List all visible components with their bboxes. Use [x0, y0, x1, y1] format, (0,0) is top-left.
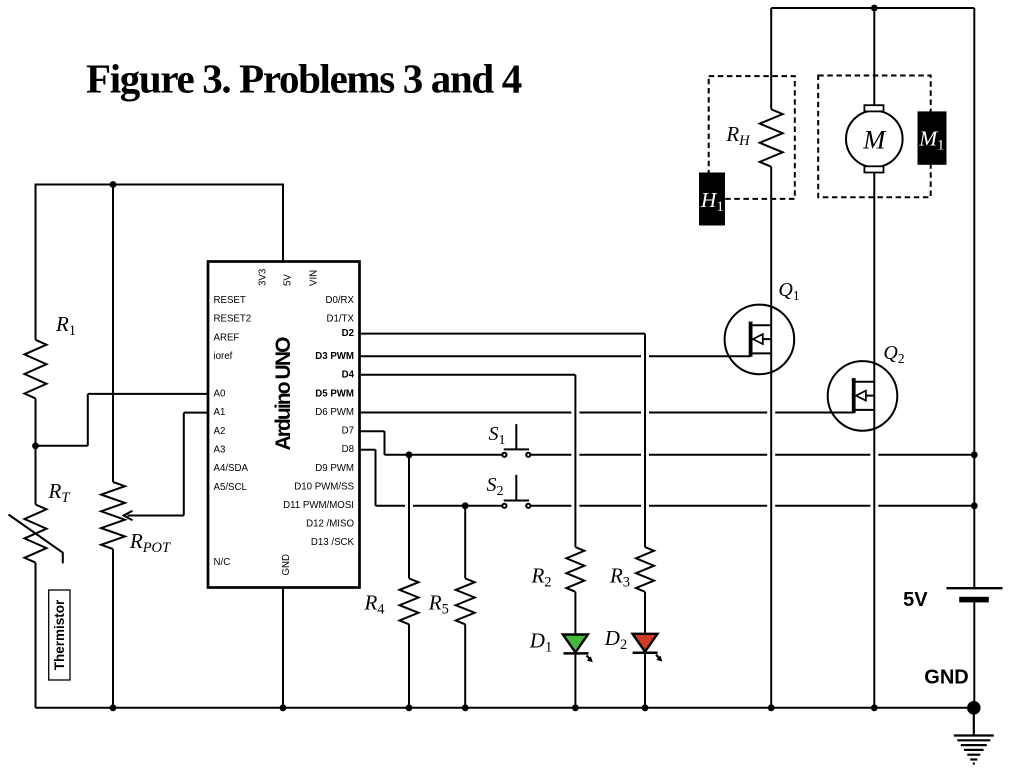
svg-text:N/C: N/C: [214, 557, 231, 568]
svg-text:A5/SCL: A5/SCL: [214, 482, 248, 493]
resistor R4: [400, 578, 419, 624]
wire: D4 net to R2: [360, 375, 576, 547]
svg-text:R3: R3: [609, 564, 630, 591]
transistor Q1: [725, 305, 795, 375]
svg-text:Q1: Q1: [778, 279, 799, 303]
svg-text:RT: RT: [48, 479, 71, 506]
wire: 5V battery rail right: [973, 8, 975, 701]
node GND junction: [967, 701, 981, 715]
M1 black box: [918, 111, 947, 164]
junction: D2 cathode on ground rail: [642, 704, 649, 711]
svg-text:D2: D2: [604, 626, 627, 653]
svg-text:D9 PWM: D9 PWM: [315, 463, 354, 474]
svg-text:Arduino UNO: Arduino UNO: [272, 337, 295, 451]
svg-text:GND: GND: [924, 667, 968, 689]
wire: top-left horizontal rail: [36, 184, 284, 186]
dashed box motor assembly: [818, 76, 931, 198]
battery 5V: [947, 588, 1003, 602]
junction: D1 cathode on ground rail: [572, 704, 579, 711]
svg-text:AREF: AREF: [214, 332, 240, 343]
thermistor text box: [49, 590, 70, 680]
wire: top-right horizontal rail: [771, 7, 974, 9]
svg-text:Thermistor: Thermistor: [52, 599, 67, 670]
wire: R2-D1 branch lower: [574, 592, 576, 708]
svg-text:D13 /SCK: D13 /SCK: [311, 537, 355, 548]
junction: S2 row to 5V rail: [971, 502, 978, 509]
svg-text:Q2: Q2: [883, 342, 904, 366]
thermistor RT: [9, 505, 63, 564]
wire: Arduino GND pin to bottom rail: [282, 588, 284, 708]
wire: 5V pin drop to Arduino: [282, 184, 284, 262]
wire: D8 jog down to S2 row: [360, 450, 376, 506]
svg-text:D10 PWM/SS: D10 PWM/SS: [294, 481, 354, 492]
svg-text:ioref: ioref: [214, 351, 233, 362]
wire: A1 wiper wire: [128, 413, 209, 516]
wire: R3-D2 branch lower: [644, 592, 646, 708]
junction: Q1 source on ground rail: [768, 704, 775, 711]
junction: motor branch on 5V top rail: [871, 5, 878, 12]
junction: R5 tap on S2 row: [462, 502, 469, 509]
svg-text:D6 PWM: D6 PWM: [315, 407, 354, 418]
resistor R2: [566, 547, 584, 592]
wire: A0 sense wire: [36, 394, 209, 446]
svg-text:M: M: [862, 125, 887, 155]
svg-text:5V: 5V: [282, 274, 293, 286]
wire: R5 branch vertical: [464, 506, 466, 708]
svg-text:VIN: VIN: [308, 270, 319, 286]
svg-text:D7: D7: [342, 426, 354, 437]
junction: R5 bottom on ground rail: [462, 704, 469, 711]
wire: S2 row: [376, 505, 975, 507]
Arduino UNO box U1: [208, 262, 360, 588]
svg-text:RESET: RESET: [214, 295, 246, 306]
wire: D6 PWM net to Q2 gate: [360, 412, 854, 414]
svg-text:D12 /MISO: D12 /MISO: [306, 519, 354, 530]
switch S2: [502, 475, 530, 508]
svg-text:A0: A0: [214, 388, 226, 399]
wiper arrowhead: [124, 511, 133, 521]
junction: Arduino GND on ground rail: [280, 704, 287, 711]
svg-text:S2: S2: [487, 474, 504, 499]
svg-text:D8: D8: [342, 444, 354, 455]
svg-text:3V3: 3V3: [257, 269, 268, 286]
svg-text:RPOT: RPOT: [129, 529, 171, 556]
LED D1 (green): [563, 635, 593, 663]
svg-text:Figure 3. Problems 3 and 4: Figure 3. Problems 3 and 4: [86, 55, 522, 101]
svg-text:R2: R2: [530, 564, 551, 591]
ground symbol: [954, 708, 994, 764]
wire: left branch vertical (R1/RT): [35, 184, 37, 708]
svg-text:A1: A1: [214, 407, 226, 418]
resistor RH: [760, 109, 783, 166]
svg-text:R5: R5: [428, 591, 449, 618]
junction: R1/RT node to A0: [32, 442, 39, 449]
svg-text:D0/RX: D0/RX: [325, 295, 354, 306]
junction: S1 row to 5V rail: [971, 451, 978, 458]
wire: D7 jog down to S1 row: [360, 431, 385, 455]
svg-text:D3 PWM: D3 PWM: [315, 351, 354, 362]
wire: RPOT branch vertical: [112, 184, 114, 708]
potentiometer RPOT: [101, 482, 125, 549]
junction: RPOT tap on top rail: [110, 181, 117, 188]
svg-text:R4: R4: [363, 591, 385, 618]
svg-text:A3: A3: [214, 445, 226, 456]
svg-text:D4: D4: [342, 369, 355, 380]
wire: motor/Q2 drain vertical: [873, 8, 875, 708]
svg-text:5V: 5V: [903, 589, 928, 611]
switch S1: [502, 424, 530, 457]
H1 black box: [699, 173, 725, 226]
junction: R4 tap on S1 row: [406, 451, 413, 458]
junction: R4 bottom on ground rail: [406, 704, 413, 711]
svg-text:A2: A2: [214, 426, 226, 437]
svg-text:RH: RH: [725, 122, 751, 149]
svg-text:A4/SDA: A4/SDA: [214, 463, 249, 474]
junction: RPOT bottom on ground rail: [110, 704, 117, 711]
svg-text:D11 PWM/MOSI: D11 PWM/MOSI: [283, 500, 354, 511]
svg-text:R1: R1: [55, 312, 76, 339]
resistor R5: [456, 578, 475, 624]
wire: heater/Q1 drain vertical: [770, 8, 772, 708]
wire: bottom ground rail: [36, 707, 974, 709]
resistor R1: [25, 340, 47, 399]
wire: D2 net to R3: [360, 334, 646, 547]
svg-text:D2: D2: [342, 328, 354, 339]
svg-text:D1/TX: D1/TX: [327, 314, 355, 325]
wire: D3 PWM net to Q1 gate: [360, 355, 751, 357]
motor M: [846, 105, 903, 172]
resistor R3: [636, 547, 654, 592]
junction: Q2 source on ground rail: [871, 704, 878, 711]
svg-text:GND: GND: [281, 554, 292, 576]
LED D2 (red): [633, 634, 663, 662]
svg-text:D1: D1: [529, 629, 552, 656]
svg-text:S1: S1: [489, 423, 506, 448]
transistor Q2: [828, 361, 898, 431]
dashed box heater assembly: [709, 76, 795, 199]
wire: S1 row: [385, 454, 975, 456]
svg-text:D5 PWM: D5 PWM: [315, 388, 354, 399]
svg-text:RESET2: RESET2: [214, 314, 252, 325]
wire: R4 branch vertical: [408, 455, 410, 708]
